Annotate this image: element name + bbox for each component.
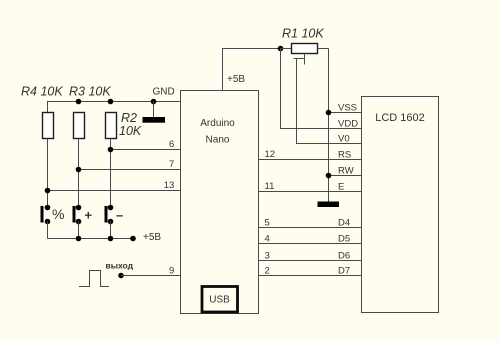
svg-text:11: 11 [265, 181, 275, 192]
node pin13 junction [45, 188, 51, 194]
svg-text:GND: GND [153, 87, 175, 98]
node R3 top junction [76, 99, 82, 105]
wire D6 pin3 [259, 260, 362, 262]
wire +5B bottom rail [48, 238, 134, 240]
potentiometer R1 [281, 44, 329, 65]
node RW junction [326, 173, 332, 179]
svg-text:10K: 10K [119, 124, 142, 138]
node R1 left junction [278, 46, 284, 52]
svg-text:D6: D6 [338, 250, 350, 261]
node GND junction [151, 99, 157, 105]
wire pin 9 [121, 275, 181, 277]
button S2 plus [73, 205, 82, 239]
svg-text:5: 5 [265, 217, 270, 228]
svg-text:13: 13 [164, 180, 175, 191]
svg-text:R2: R2 [121, 111, 137, 125]
svg-text:LCD 1602: LCD 1602 [375, 112, 425, 124]
wire V0 from R1 wiper [297, 59, 362, 144]
wire D4 pin5 [259, 227, 362, 229]
svg-text:RS: RS [338, 149, 351, 160]
wire +5B top feed [223, 49, 281, 91]
wire pin 7 [79, 169, 181, 171]
svg-text:+: + [85, 208, 93, 223]
svg-text:3: 3 [265, 250, 270, 261]
wire R3 column down [78, 139, 80, 208]
svg-text:D4: D4 [338, 217, 350, 228]
node rail S3 [108, 236, 114, 242]
svg-text:4: 4 [265, 233, 270, 244]
node R2 top junction [108, 99, 114, 105]
svg-text:7: 7 [169, 159, 174, 170]
resistor R2 [106, 113, 117, 139]
svg-text:VDD: VDD [338, 118, 358, 129]
svg-text:R4 10K: R4 10K [21, 85, 63, 99]
wire RS pin12 [259, 159, 362, 161]
svg-text:%: % [52, 206, 64, 222]
svg-text:RW: RW [338, 165, 354, 176]
LCD 1602 module [362, 97, 439, 313]
label R2 10K [119, 111, 142, 138]
node VSS junction [326, 110, 332, 116]
svg-text:D5: D5 [338, 233, 350, 244]
button S1 percent [41, 205, 51, 239]
svg-text:VSS: VSS [338, 102, 357, 113]
svg-text:9: 9 [169, 265, 174, 276]
node +5B terminal [130, 236, 136, 242]
wire D5 pin4 [259, 243, 362, 245]
node pin6 junction [108, 147, 114, 153]
wire pin 13 [48, 190, 181, 192]
button S3 minus [105, 205, 114, 239]
svg-text:R3 10K: R3 10K [69, 85, 111, 99]
USB connector [202, 287, 238, 313]
wire VDD from R1 left [281, 49, 362, 129]
svg-text:6: 6 [169, 139, 174, 150]
wire R4 column down [47, 139, 49, 208]
svg-text:+5B: +5B [143, 232, 161, 243]
wire GND rail [48, 102, 181, 113]
svg-text:+5B: +5B [227, 74, 245, 85]
wire E pin11 [259, 191, 362, 193]
svg-text:USB: USB [209, 295, 230, 306]
node pin9 terminal [118, 273, 124, 279]
node pin7 junction [76, 167, 82, 173]
wire pin 6 [111, 149, 181, 151]
wire R1 right to ground column [328, 49, 330, 202]
node rail S2 [76, 236, 82, 242]
wire D7 pin2 [259, 275, 362, 277]
Arduino Nano U1 [181, 91, 259, 314]
svg-text:выход: выход [106, 260, 134, 270]
ground symbol left [143, 102, 166, 123]
wire RW stub [329, 175, 362, 177]
ground symbol right [318, 202, 340, 208]
pulse waveform icon [79, 271, 109, 287]
svg-text:D7: D7 [338, 265, 350, 276]
svg-text:2: 2 [265, 265, 270, 276]
svg-text:E: E [338, 181, 344, 192]
svg-text:V0: V0 [338, 133, 350, 144]
resistor R4 [43, 113, 54, 139]
svg-text:Nano: Nano [206, 135, 230, 146]
wire VSS stub [329, 112, 362, 114]
svg-text:Arduino: Arduino [200, 118, 235, 129]
svg-text:–: – [116, 208, 123, 223]
resistor R3 [74, 113, 85, 139]
svg-text:R1 10K: R1 10K [282, 27, 324, 41]
wire R2 column down [110, 139, 112, 208]
svg-text:12: 12 [265, 149, 276, 160]
